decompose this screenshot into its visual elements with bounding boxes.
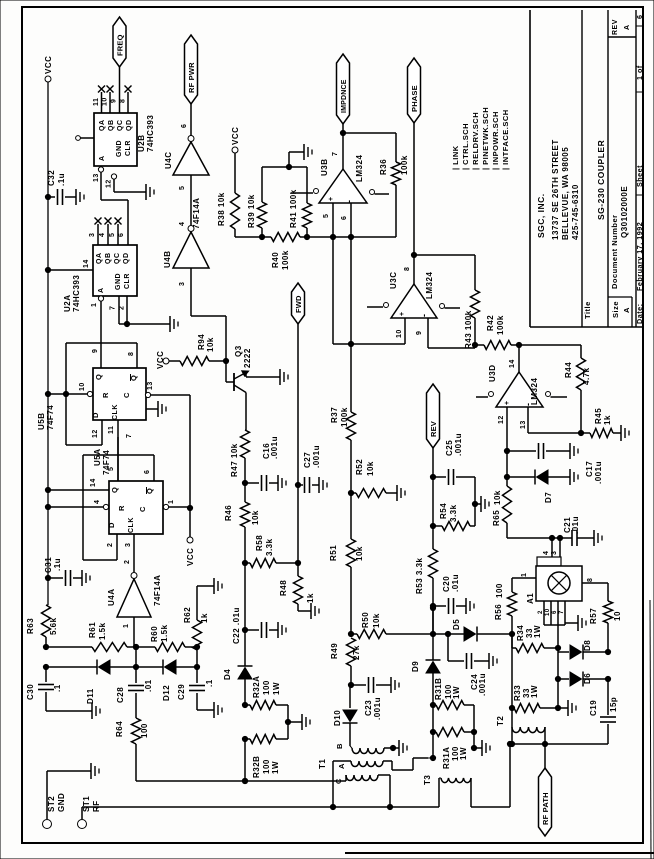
junction C20b [430, 605, 435, 610]
svg-text:| INTFACE.SCH: | INTFACE.SCH [501, 109, 510, 170]
svg-text:8: 8 [128, 352, 135, 356]
svg-text:-: - [419, 314, 429, 318]
junction bottom rail C [242, 778, 247, 783]
wire RF PATH stub [544, 744, 546, 768]
wire R46 node down to C22 [244, 563, 246, 630]
svg-text:QB: QB [105, 253, 112, 265]
svg-text:6: 6 [341, 216, 348, 220]
capacitor C32 [48, 196, 55, 198]
ground at C31 [81, 570, 83, 586]
svg-text:LM324: LM324 [425, 272, 434, 299]
svg-text:D: D [91, 412, 100, 418]
svg-text:R32A: R32A [252, 676, 261, 698]
svg-text:C: C [122, 392, 131, 398]
svg-text:R61: R61 [88, 622, 97, 638]
svg-text:100k: 100k [281, 250, 290, 270]
junction R61 row [43, 644, 48, 649]
svg-text:D: D [107, 522, 116, 528]
svg-text:100k: 100k [400, 155, 409, 175]
svg-text:+: + [399, 311, 406, 316]
svg-text:D10: D10 [333, 710, 342, 726]
svg-text:9: 9 [111, 99, 118, 103]
junction C31 [45, 575, 50, 580]
svg-text:6: 6 [552, 610, 558, 614]
svg-text:FWD: FWD [294, 295, 303, 313]
svg-text:QA: QA [99, 120, 106, 132]
svg-text:100k: 100k [340, 407, 349, 427]
svg-text:10: 10 [545, 608, 551, 616]
resistor R63 [42, 605, 51, 637]
svg-text:3: 3 [125, 543, 132, 547]
wire FWD column [297, 324, 299, 485]
svg-text:74F74: 74F74 [46, 405, 55, 430]
svg-text:U3B: U3B [320, 158, 329, 176]
junction rail 344 [348, 341, 353, 346]
ground at Q3 emitter [279, 369, 281, 385]
resistor R53 [432, 526, 434, 549]
op-amp U3B power stub bottom [370, 190, 375, 195]
svg-text:U5A: U5A [93, 448, 102, 466]
svg-text:RF: RF [92, 800, 101, 812]
junction R54 [430, 523, 435, 528]
U2B pin 13 bubble and wire [98, 167, 103, 172]
resistor R65 [503, 486, 512, 523]
svg-text:R: R [117, 505, 126, 511]
U2B pin 11 stub with no-connect [101, 92, 103, 113]
ground at R62 [213, 578, 215, 594]
svg-text:Date:: Date: [635, 304, 644, 324]
junction R33 right [555, 705, 560, 710]
svg-text:| PINETWK.SCH: | PINETWK.SCH [481, 107, 490, 170]
junction R42/U3D [516, 342, 521, 347]
capacitor C21 [571, 530, 573, 546]
wire diode rail [46, 666, 97, 668]
svg-text:.001u: .001u [373, 697, 382, 720]
U3B output pin 7 [342, 124, 344, 169]
svg-text:A: A [624, 24, 631, 30]
wire REV column 2 [432, 477, 434, 526]
svg-text:8: 8 [120, 99, 127, 103]
svg-text:R37: R37 [330, 407, 339, 423]
page shadow [345, 852, 654, 854]
junction U5A PRE [45, 504, 50, 509]
svg-text:QC: QC [114, 253, 121, 265]
svg-text:5.6k: 5.6k [49, 617, 58, 635]
ground at U2A [169, 316, 171, 332]
svg-text:10: 10 [613, 611, 622, 621]
ground at C30 [91, 703, 93, 719]
svg-text:R33: R33 [513, 685, 522, 701]
svg-text:2: 2 [107, 543, 114, 547]
ground at D7 [569, 469, 571, 485]
svg-text:GND: GND [116, 140, 123, 157]
svg-text:.1: .1 [53, 684, 62, 692]
U2B clock stub left [76, 136, 81, 141]
U2A pin 14 VCC wire [48, 269, 93, 271]
U5B pin 7 ground stub [146, 408, 158, 410]
VCC terminal top-left [45, 76, 51, 82]
svg-text:R: R [101, 392, 110, 398]
A1 transformer block [537, 557, 561, 566]
junction C22 [242, 627, 247, 632]
svg-text:C19: C19 [589, 700, 598, 716]
svg-text:U2B: U2B [137, 134, 146, 152]
U2A pin 4 stub with no-connect [107, 224, 109, 245]
wire PHASE to U3C output [413, 123, 415, 284]
svg-text:C17: C17 [585, 461, 594, 477]
svg-text:1: 1 [168, 500, 175, 504]
svg-text:| LINK: | LINK [451, 145, 460, 170]
svg-text:| INPOWR.SCH: | INPOWR.SCH [491, 111, 500, 170]
svg-text:R48: R48 [279, 580, 288, 596]
junction U5B PRE [45, 391, 50, 396]
svg-text:R51: R51 [329, 545, 338, 561]
junction IMPDNCE [340, 130, 345, 135]
wire FWD column lower [297, 485, 299, 576]
junction C28 top [133, 664, 138, 669]
REV cell [608, 36, 636, 38]
resistor R31B [433, 704, 436, 706]
svg-text:Q: Q [110, 487, 119, 493]
svg-text:C20: C20 [442, 576, 451, 592]
svg-text:U4A: U4A [107, 588, 116, 606]
svg-text:1: 1 [123, 624, 130, 628]
svg-text:R94: R94 [197, 334, 206, 350]
ground at R48 [310, 603, 312, 619]
svg-text:C31: C31 [44, 557, 53, 573]
junction pin6 [348, 234, 353, 239]
svg-text:10: 10 [79, 382, 86, 391]
junction R62 bottom [194, 644, 199, 649]
A1 pin 3 wire [559, 538, 561, 557]
svg-text:B: B [335, 743, 344, 749]
svg-text:U3C: U3C [389, 271, 398, 289]
wire divider rail right [333, 236, 396, 238]
flag PHASE [408, 58, 421, 123]
U3C pin 10 wire [404, 318, 406, 344]
svg-text:| RELDRV.SCH: | RELDRV.SCH [471, 112, 480, 170]
capacitor C30 [45, 667, 47, 682]
svg-text:R56: R56 [494, 604, 503, 620]
ground at C29 [213, 702, 215, 718]
U2A pin 6 stub (to U2B pin13) [127, 222, 129, 245]
junction R32A left [242, 702, 247, 707]
resistor R52 [351, 492, 356, 494]
svg-text:7: 7 [559, 610, 565, 614]
U5B pin 10 PRE bubble to VCC [87, 391, 92, 396]
resistor R32A [245, 704, 250, 706]
junction U4A input [133, 644, 138, 649]
svg-text:3: 3 [179, 282, 186, 286]
junction ground tap [286, 164, 291, 169]
svg-text:1W: 1W [533, 625, 542, 638]
ground at R32 [288, 721, 302, 723]
svg-text:D7: D7 [544, 492, 553, 503]
U3B pin 5 wire [332, 203, 334, 237]
svg-text:A: A [98, 287, 105, 293]
title block outer box [529, 10, 531, 327]
resistor R50 [351, 633, 357, 635]
svg-text:.01: .01 [144, 679, 153, 692]
ground at C24 [488, 653, 490, 669]
svg-text:R41 100k: R41 100k [289, 189, 298, 228]
wire bias rail upper [46, 646, 92, 648]
svg-text:QA: QA [96, 253, 103, 265]
resistor R54 [433, 525, 442, 527]
resistor R47 [241, 430, 250, 458]
ground at R45 [620, 425, 622, 441]
U5A pin 3 CLK wire to U4A [133, 534, 135, 572]
svg-text:C25: C25 [445, 440, 454, 456]
A1 body [536, 566, 582, 601]
resistor R36 [392, 162, 401, 185]
svg-text:12: 12 [498, 415, 505, 424]
wire pin12 column [506, 451, 508, 486]
wire R39 top rail [262, 166, 307, 168]
svg-text:T2: T2 [496, 716, 505, 726]
resistor R37 [347, 412, 356, 440]
svg-text:R47 10k: R47 10k [230, 443, 239, 477]
junction R31 right [471, 729, 476, 734]
resistor R38 [234, 153, 236, 193]
resistor R43 [471, 290, 480, 318]
junction T1 B ground [390, 745, 395, 750]
U3C pin 9 wire [427, 318, 429, 348]
wire R65 to C21 rail [506, 523, 508, 538]
flag IMPDNCE [337, 54, 350, 124]
ground at C23 [390, 677, 392, 693]
wire R48 to ground [297, 604, 299, 611]
svg-text:RF PATH: RF PATH [541, 792, 550, 825]
wire divider rail [235, 236, 271, 238]
svg-text:QB: QB [108, 120, 115, 132]
svg-text:.001u: .001u [594, 461, 603, 484]
U4B input wire [190, 268, 192, 316]
svg-text:IMPDNCE: IMPDNCE [341, 79, 348, 113]
svg-text:GND: GND [57, 793, 66, 812]
T3 winding [441, 778, 471, 783]
flag RF PWR [185, 35, 198, 104]
svg-text:QC: QC [117, 120, 124, 132]
ground at R31 [474, 747, 482, 749]
svg-text:T3: T3 [423, 775, 432, 785]
svg-text:2: 2 [124, 560, 131, 564]
junction C24 tap [445, 631, 450, 636]
U2A pin 1 bubble and wire [98, 296, 103, 301]
junction R47/C16 [242, 480, 247, 485]
junction C27 [295, 482, 300, 487]
resistor R32B [245, 738, 250, 740]
ground at divider [303, 144, 305, 160]
svg-text:C32: C32 [47, 170, 56, 186]
resistor R94 [169, 360, 180, 362]
resistor R40 [271, 233, 300, 242]
svg-text:Q30102000E: Q30102000E [620, 186, 629, 238]
svg-text:1W: 1W [459, 747, 468, 760]
svg-text:.001u: .001u [478, 673, 487, 696]
op-amp U3C power stub bottom [440, 304, 445, 309]
svg-text:5: 5 [179, 186, 186, 190]
svg-text:13: 13 [93, 173, 100, 182]
IC U5B 74F74 body [93, 368, 146, 420]
wire RF path rail [510, 743, 608, 745]
svg-text:100: 100 [140, 723, 149, 738]
inverter U4B 74F14A [173, 232, 209, 268]
svg-text:4: 4 [94, 500, 101, 504]
op-amp U3C LM324 [391, 284, 437, 318]
wire VCC rail [47, 82, 49, 605]
junction D11 row [43, 664, 48, 669]
svg-text:D11: D11 [86, 688, 95, 704]
svg-text:VCC: VCC [44, 56, 53, 74]
op-amp U3D power stub bottom [546, 392, 551, 397]
svg-text:R52: R52 [355, 459, 364, 475]
op-amp U3B power stub top [291, 192, 313, 194]
U5A pin 6 Qbar loop to D [153, 455, 155, 481]
svg-text:8: 8 [404, 267, 411, 271]
junction D6 left [555, 676, 560, 681]
junction A1 pin4 [549, 535, 554, 540]
ground at C25 [475, 503, 481, 505]
svg-text:9: 9 [92, 349, 99, 353]
U3D pin 13 wire [527, 407, 529, 433]
svg-text:R62: R62 [183, 607, 192, 623]
junction U5A pin14 [45, 487, 50, 492]
svg-text:C22 .01u: C22 .01u [232, 607, 241, 644]
svg-text:R60: R60 [150, 626, 159, 642]
svg-text:12: 12 [106, 179, 113, 188]
capacitor C27 [298, 484, 303, 486]
svg-text:A: A [99, 155, 106, 161]
junction R50/R49 [348, 631, 353, 636]
resistor R39 [258, 202, 267, 228]
junction C32 [45, 194, 50, 199]
wire R62 top to ground [196, 586, 198, 620]
VCC stub for U5A/U5B clear [187, 537, 193, 543]
resistor R44 [519, 344, 581, 346]
svg-text:100k: 100k [496, 315, 505, 335]
ground at C16 [277, 475, 279, 491]
flag RF PATH [539, 768, 552, 836]
svg-text:12: 12 [92, 429, 99, 438]
feedback wire to R43 [414, 254, 475, 256]
svg-text:C: C [334, 778, 343, 784]
svg-text:1W: 1W [271, 761, 280, 774]
svg-text:R43 100k: R43 100k [464, 310, 473, 349]
junction R58 right [295, 560, 300, 565]
svg-text:BELLEVUE, WA 98005: BELLEVUE, WA 98005 [561, 147, 570, 240]
svg-text:14: 14 [509, 359, 516, 368]
svg-text:14: 14 [83, 259, 90, 268]
svg-text:10: 10 [102, 97, 109, 106]
U3D pin 12 wire [506, 407, 508, 451]
svg-text:74HC393: 74HC393 [72, 275, 81, 312]
svg-text:1: 1 [521, 573, 528, 577]
svg-text:QD: QD [123, 253, 130, 265]
svg-text:74F14A: 74F14A [153, 575, 162, 606]
svg-text:+: + [504, 400, 511, 405]
U4C output wire [190, 104, 192, 136]
terminal ST1 RF [78, 820, 87, 829]
wire ground tap [288, 152, 290, 167]
op-amp U3B LM324 [319, 169, 367, 203]
svg-text:Q3: Q3 [234, 345, 243, 357]
wire REV column [432, 448, 434, 477]
diode D9 [432, 634, 434, 660]
capacitor C20 [433, 605, 446, 607]
svg-text:R46: R46 [224, 505, 233, 521]
svg-text:RF PWR: RF PWR [187, 62, 196, 93]
svg-text:3: 3 [551, 551, 558, 555]
U2B pin 9 stub to FREQ [119, 67, 121, 113]
VCC stub at R38 [232, 147, 238, 153]
svg-text:-: - [344, 200, 354, 204]
junction R32 right [285, 719, 290, 724]
U2A pin 5 stub with no-connect [117, 224, 119, 245]
A1 pin 8 wire [582, 582, 608, 584]
junction R94/Q3 [223, 358, 228, 363]
resistor R60 [155, 643, 185, 652]
resistor R61 [92, 643, 127, 652]
svg-text:13737 SE 26TH STREET: 13737 SE 26TH STREET [551, 139, 560, 240]
svg-text:3.3k: 3.3k [265, 538, 274, 556]
junction D7 [504, 474, 509, 479]
svg-text:PHASE: PHASE [410, 85, 419, 112]
svg-text:1W: 1W [452, 686, 461, 699]
ground at C20 [465, 598, 467, 614]
wire D9 column lower [432, 705, 434, 758]
svg-text:Q: Q [94, 374, 103, 380]
svg-text:15p: 15p [609, 697, 618, 712]
flag FREQ [113, 17, 126, 67]
junction R56/rail [509, 631, 514, 636]
svg-text:425-745-6310: 425-745-6310 [571, 184, 580, 240]
svg-text:FREQ: FREQ [116, 34, 125, 56]
ground at ST2 [90, 763, 92, 779]
svg-text:10: 10 [396, 329, 403, 338]
date row dividers [636, 194, 643, 196]
U4A input wire [133, 617, 135, 647]
svg-text:C29: C29 [177, 684, 186, 700]
wire detector rail [433, 633, 448, 635]
svg-text:100: 100 [262, 759, 271, 774]
svg-text:4.7k: 4.7k [582, 367, 591, 385]
junction R31A left [430, 729, 435, 734]
svg-text:D4: D4 [223, 669, 232, 680]
resistor R42 [475, 344, 484, 346]
VCC stub at R94 [163, 358, 169, 364]
svg-text:10k: 10k [206, 337, 215, 352]
U5A pin 4 PRE bubble to VCC [103, 504, 108, 509]
svg-text:R44: R44 [564, 362, 573, 378]
svg-text:11: 11 [108, 426, 115, 434]
junction C23 [348, 682, 353, 687]
IC U2A 74HC393 body [93, 245, 137, 296]
capacitor C17 [507, 450, 536, 452]
svg-text:1k: 1k [306, 593, 315, 603]
svg-text:R64: R64 [115, 721, 124, 737]
resistor R62 [193, 620, 202, 650]
A1 pin 1 wire [512, 577, 536, 579]
ground at U2B pin12 [145, 184, 147, 200]
wire R64 to bottom rail [135, 744, 137, 781]
U5B pin 13 CLR bubble wire [145, 392, 150, 397]
svg-text:LM324: LM324 [530, 378, 539, 405]
inverter U4A 74F14A [117, 579, 151, 617]
svg-text:C23: C23 [364, 700, 373, 716]
svg-text:5: 5 [108, 467, 115, 471]
junction rail [430, 631, 435, 636]
